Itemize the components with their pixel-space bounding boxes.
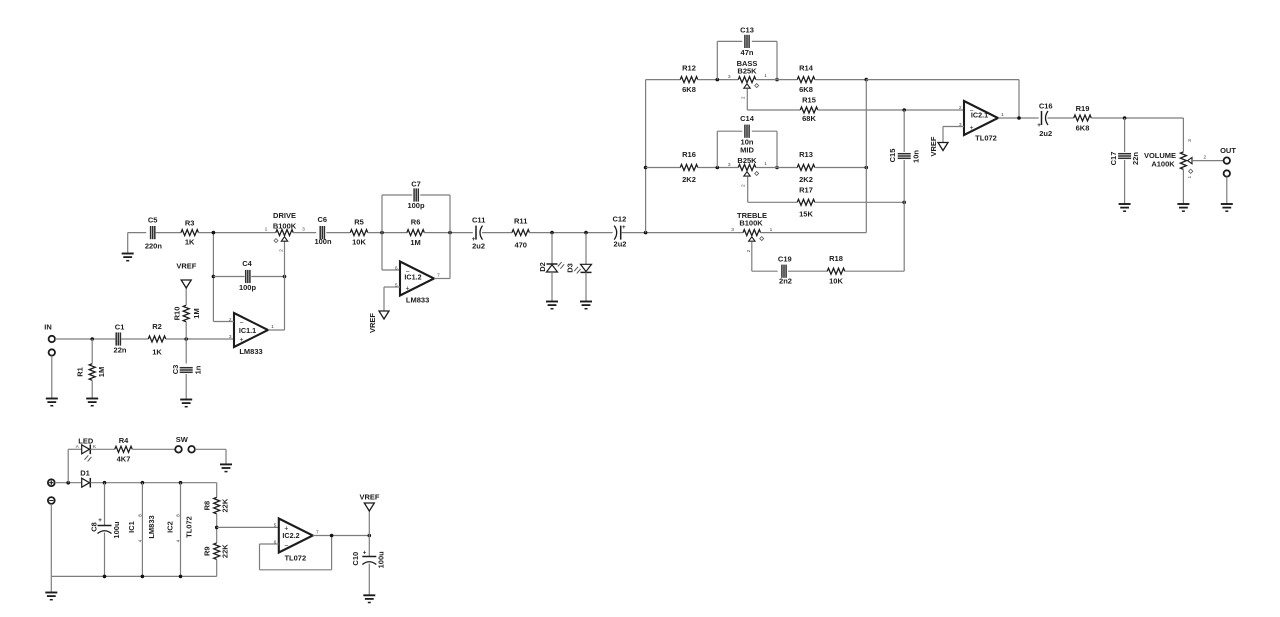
svg-text:A100K: A100K: [1151, 159, 1175, 168]
capacitor C15 10n: [888, 149, 920, 163]
wire LED branch up: [68, 449, 82, 482]
svg-text:100p: 100p: [239, 283, 257, 292]
svg-text:IC1.2: IC1.2: [404, 273, 421, 282]
wire volume bottom to ground: [1182, 170, 1184, 204]
svg-text:+: +: [98, 517, 102, 524]
wire C8 bottom: [104, 533, 106, 577]
svg-text:1M: 1M: [97, 367, 106, 377]
svg-text:100u: 100u: [377, 551, 386, 569]
wire IC1.1 output up to DRIVE wiper: [268, 241, 285, 330]
svg-text:1: 1: [1001, 112, 1004, 118]
svg-text:10n: 10n: [741, 138, 754, 147]
svg-text:R3: R3: [185, 219, 195, 228]
svg-text:1: 1: [764, 161, 767, 167]
wire R4 to SW: [132, 448, 175, 450]
wire D3 to ground: [585, 272, 587, 301]
svg-text:C3: C3: [171, 365, 180, 375]
battery negative terminal: [48, 497, 55, 504]
wire R19 to volume node: [1091, 117, 1183, 119]
wire C3 to ground: [185, 374, 187, 400]
wire C4 right to output branch: [251, 276, 284, 278]
OUT jack J2: [1220, 146, 1236, 177]
junction R3 / C4 branch: [212, 231, 216, 235]
diode D3: [565, 263, 591, 273]
svg-text:2: 2: [959, 105, 962, 111]
svg-text:+: +: [1037, 122, 1041, 129]
svg-text:2n2: 2n2: [779, 276, 792, 285]
svg-text:1: 1: [764, 73, 767, 79]
svg-text:8: 8: [138, 514, 144, 517]
wire R1 bottom to ground: [91, 381, 93, 399]
ground below C10: [363, 595, 375, 602]
junction C17/volume: [1123, 116, 1127, 120]
wire C6 to R5: [326, 232, 350, 234]
svg-text:IC2.2: IC2.2: [282, 531, 299, 540]
svg-text:6: 6: [395, 265, 398, 271]
wire DRIVE right to C6: [293, 232, 316, 234]
capacitor C19 2n2: [778, 255, 792, 286]
wire C17 stem: [1124, 118, 1126, 152]
wire LED to R4: [90, 448, 115, 450]
op-amp IC2.1 TL072: [959, 101, 1004, 142]
svg-text:LM833: LM833: [239, 347, 262, 356]
svg-text:C8: C8: [90, 522, 99, 532]
wire C13 loop left: [717, 41, 742, 79]
svg-text:R15: R15: [802, 95, 816, 104]
wire +9V rail: [90, 482, 216, 484]
wire R2 to IC1.1 pin3: [166, 338, 234, 340]
potentiometer VOLUME A100K: [1144, 139, 1207, 179]
wire SW to ground: [195, 449, 226, 464]
svg-text:2: 2: [1203, 155, 1206, 161]
junction 0V IC2: [179, 575, 183, 579]
svg-text:+: +: [239, 337, 243, 344]
svg-text:5: 5: [274, 522, 277, 528]
svg-text:2: 2: [741, 184, 747, 187]
ground at IN jack: [46, 399, 58, 406]
wire BASS right to R14: [756, 79, 798, 81]
ground below OUT: [1221, 204, 1233, 211]
op-amp IC2.2 TL072: [274, 519, 319, 563]
wire IC1.2 output up to main line: [434, 233, 450, 279]
wire R1 top: [91, 339, 93, 364]
junction IC2.1 output / feedback: [1017, 116, 1021, 120]
svg-text:1n: 1n: [194, 365, 203, 374]
ground at battery: [45, 593, 57, 600]
wire C19 to R18: [788, 270, 827, 272]
wire R12 to BASS pot: [698, 79, 738, 81]
wire ground stub to C5: [128, 233, 147, 254]
resistor R19 6K8: [1074, 104, 1092, 133]
svg-text:470: 470: [514, 241, 527, 250]
svg-text:B100K: B100K: [273, 221, 297, 230]
svg-text:R9: R9: [202, 546, 211, 556]
svg-text:2K2: 2K2: [682, 175, 696, 184]
svg-text:C14: C14: [740, 114, 755, 123]
svg-text:VREF: VREF: [929, 136, 938, 156]
wire IC2.2 feedback loop: [260, 536, 332, 570]
resistor R9 22K: [202, 543, 229, 560]
capacitor C10 100u: [351, 550, 386, 569]
wire R11 to C12: [530, 232, 613, 234]
junction IC2.2 output/feedback: [330, 534, 334, 538]
svg-text:22K: 22K: [220, 544, 229, 558]
wire C12 to TREBLE pot: [621, 232, 743, 234]
junction BASS left / C13 left: [716, 78, 720, 82]
svg-text:C10: C10: [351, 552, 360, 566]
resistor R2 1K: [148, 322, 166, 356]
wire IC2.2 output to VREF node: [313, 535, 370, 537]
wire C14 loop right: [752, 131, 777, 167]
wire D2 stem: [551, 233, 553, 264]
wire C16 to R19: [1048, 117, 1074, 119]
resistor R11 470: [512, 217, 530, 250]
svg-text:22n: 22n: [114, 346, 127, 355]
svg-text:VREF: VREF: [368, 313, 377, 333]
wire OUT sleeve to ground: [1226, 177, 1228, 204]
svg-text:1K: 1K: [185, 238, 195, 247]
svg-text:VREF: VREF: [359, 492, 379, 501]
resistor R4 4K7: [115, 436, 133, 463]
wire R6 to C11: [424, 232, 472, 234]
VREF symbol at IC1.2: [368, 311, 389, 333]
junction 0V IC1: [141, 575, 145, 579]
node B junction C12/tone trunk: [644, 231, 648, 235]
potentiometer DRIVE B100K: [265, 211, 306, 252]
svg-text:2: 2: [279, 249, 285, 252]
svg-text:100n: 100n: [314, 237, 332, 246]
svg-text:R12: R12: [682, 63, 696, 72]
svg-text:C15: C15: [888, 149, 897, 163]
ground below D2: [546, 302, 558, 309]
svg-text:C11: C11: [472, 216, 485, 225]
wire IN to C1: [55, 338, 115, 340]
resistor R3 1K: [181, 219, 199, 247]
wire left branch down to IC1.2 pin6: [382, 233, 400, 270]
svg-text:R10: R10: [172, 307, 181, 321]
svg-text:C19: C19: [778, 255, 792, 264]
ground below D3: [580, 302, 592, 309]
op-amp IC1.2 LM833: [395, 262, 440, 305]
svg-text:OUT: OUT: [1220, 146, 1236, 155]
node A junction R2/R10/C3: [184, 337, 188, 341]
svg-text:B25K: B25K: [737, 66, 757, 75]
resistor R10 1M: [172, 305, 201, 322]
svg-text:15K: 15K: [799, 210, 813, 219]
ground below C17: [1119, 204, 1131, 211]
wire 0V rail: [51, 504, 216, 577]
capacitor C5 220n: [145, 215, 163, 250]
wire IC1.1 pin2 branch up to R3 node: [213, 233, 234, 322]
svg-text:IC1.1: IC1.1: [239, 326, 256, 335]
svg-text:D1: D1: [80, 469, 90, 478]
VREF source symbol: [359, 492, 379, 511]
resistor R14 6K8: [797, 63, 815, 94]
wire R18 to C15 trunk bottom: [845, 160, 904, 271]
wire MID right to R13: [756, 167, 798, 169]
capacitor C16 2u2: [1037, 102, 1052, 138]
svg-text:LED: LED: [78, 436, 94, 445]
op-amp IC1.1 LM833: [229, 313, 274, 356]
svg-text:+: +: [472, 236, 476, 243]
svg-text:1: 1: [1187, 176, 1193, 179]
svg-text:R11: R11: [514, 217, 527, 226]
wire feedback from bass row to output: [866, 80, 1019, 118]
junction R8/R9 divider: [215, 526, 219, 530]
svg-text:47n: 47n: [741, 48, 754, 57]
svg-text:R19: R19: [1076, 104, 1090, 113]
potentiometer MID B25K: [728, 145, 767, 187]
svg-text:7: 7: [316, 530, 319, 536]
wire R16 to MID pot: [698, 167, 738, 169]
junction R14 / feedback line: [865, 78, 869, 82]
junction MID left / C14 left: [716, 166, 720, 170]
svg-text:100u: 100u: [112, 521, 121, 539]
LED indicator: [76, 436, 97, 461]
resistor R1 1M: [76, 364, 106, 381]
wire MID wiper to R17: [748, 176, 798, 202]
svg-text:B25K: B25K: [737, 156, 757, 165]
wire R9 bottom: [216, 559, 218, 576]
wire R5 to R6: [368, 232, 407, 234]
svg-text:B100K: B100K: [739, 219, 763, 228]
potentiometer TREBLE B100K: [731, 211, 772, 252]
svg-text:10K: 10K: [352, 238, 366, 247]
svg-text:8: 8: [176, 514, 182, 517]
junction D2: [550, 231, 554, 235]
wire left tone trunk: [646, 80, 681, 233]
svg-text:−: −: [284, 543, 288, 550]
junction feedback right: [448, 231, 452, 235]
wire D2 to ground: [551, 272, 553, 302]
resistor R13 2K2: [797, 150, 815, 184]
junction rail IC1: [141, 481, 145, 485]
junction C4 left: [212, 275, 216, 279]
svg-text:7: 7: [437, 273, 440, 279]
wire left trunk to R16: [646, 167, 681, 169]
diode D2: [538, 262, 564, 272]
svg-text:C1: C1: [115, 323, 125, 332]
capacitor C7 100p: [407, 180, 425, 211]
svg-text:1K: 1K: [152, 347, 162, 356]
capacitor C13 47n: [740, 26, 754, 58]
svg-text:MID: MID: [740, 145, 754, 154]
svg-text:3: 3: [728, 162, 731, 168]
svg-text:4: 4: [176, 539, 182, 542]
svg-text:+: +: [363, 550, 367, 557]
svg-text:TL072: TL072: [975, 133, 997, 142]
ground below R1: [86, 399, 98, 406]
junction BASS right / C13 right: [775, 78, 779, 82]
svg-text:R17: R17: [799, 186, 813, 195]
wire C10 to ground: [368, 564, 370, 596]
resistor R17 15K: [797, 186, 815, 219]
wire D3 stem: [585, 233, 587, 265]
capacitor C8 100u: [90, 517, 122, 539]
svg-text:10n: 10n: [911, 150, 920, 163]
svg-text:R8: R8: [202, 501, 211, 511]
junction R15 line / C15 trunk: [902, 108, 906, 112]
svg-text:R1: R1: [76, 367, 85, 377]
junction C4 right / DRIVE wiper / IC1.1 output: [283, 275, 287, 279]
junction 0V C8: [103, 575, 107, 579]
junction R17 / C15 trunk: [902, 201, 906, 205]
svg-text:C17: C17: [1109, 152, 1118, 166]
switch SW: [175, 435, 195, 453]
svg-text:R16: R16: [682, 150, 696, 159]
svg-text:R5: R5: [354, 218, 364, 227]
wire VREF node to C10: [368, 536, 370, 557]
svg-text:R18: R18: [829, 254, 843, 263]
resistor R6 1M: [407, 218, 425, 248]
svg-text:6K8: 6K8: [1076, 123, 1090, 132]
capacitor C12 2u2: [613, 214, 627, 248]
svg-text:LM833: LM833: [147, 515, 156, 538]
svg-text:R14: R14: [799, 63, 814, 72]
wire R14 to right trunk: [815, 79, 867, 81]
wire C4 left: [213, 276, 244, 278]
svg-text:TL072: TL072: [185, 516, 194, 538]
svg-text:D2: D2: [538, 262, 547, 272]
svg-text:22n: 22n: [1131, 152, 1140, 165]
svg-text:R2: R2: [152, 322, 162, 331]
junction LED branch: [66, 481, 70, 485]
svg-text:C4: C4: [242, 259, 252, 268]
wire R17 to C15 trunk: [815, 201, 904, 203]
junction D3: [584, 231, 588, 235]
resistor R8 22K: [202, 497, 229, 513]
capacitor C11 2u2: [472, 216, 486, 251]
wire C13 loop right: [752, 41, 777, 79]
wire IC2.1 output: [998, 117, 1039, 119]
battery positive terminal: [48, 479, 55, 486]
IC1 power pins: [127, 483, 156, 577]
svg-text:IC2: IC2: [165, 521, 174, 533]
junction node IN/R1: [90, 337, 94, 341]
resistor R18 10K: [827, 254, 845, 286]
svg-text:TL072: TL072: [284, 553, 306, 562]
svg-text:22K: 22K: [220, 498, 229, 512]
svg-text:+: +: [969, 125, 973, 132]
svg-text:1: 1: [271, 324, 274, 330]
svg-text:C6: C6: [318, 215, 328, 224]
wire volume wiper to OUT: [1192, 160, 1224, 162]
wire IC1.2 pin5 to VREF: [384, 287, 400, 311]
ground below C3: [180, 400, 192, 407]
svg-text:IC1: IC1: [127, 521, 136, 533]
svg-text:C12: C12: [613, 214, 627, 223]
svg-text:R13: R13: [799, 150, 813, 159]
wire node A down to C3: [185, 339, 187, 364]
svg-text:R6: R6: [411, 218, 421, 227]
svg-text:2: 2: [741, 96, 747, 99]
wire R8 to R9: [216, 514, 218, 543]
wire R13 to right trunk: [815, 167, 867, 169]
junction rail C8: [103, 481, 107, 485]
svg-text:+: +: [405, 286, 409, 293]
ground below VOLUME: [1177, 204, 1189, 211]
svg-text:IC2.1: IC2.1: [971, 110, 988, 119]
wire C8 top: [104, 483, 106, 526]
wire C15 trunk top: [903, 110, 905, 152]
wire C14 loop left: [717, 131, 742, 167]
junction feedback left: [380, 231, 384, 235]
wire node A up to R10: [185, 322, 187, 339]
wire VREF node up: [368, 511, 370, 536]
svg-text:C16: C16: [1039, 102, 1053, 111]
svg-text:3: 3: [1187, 139, 1193, 142]
wire R15 to IC2.1 pin2: [818, 109, 964, 111]
capacitor C3 1n: [171, 365, 203, 375]
capacitor C6 100n: [314, 215, 332, 246]
wire C17 to ground: [1124, 160, 1126, 204]
svg-text:6K8: 6K8: [682, 85, 696, 94]
svg-text:2u2: 2u2: [614, 239, 627, 248]
svg-text:C5: C5: [148, 215, 158, 224]
junction R13 / right trunk: [865, 166, 869, 170]
svg-text:C13: C13: [740, 26, 754, 35]
resistor R12 6K8: [680, 63, 698, 94]
svg-text:1M: 1M: [410, 238, 420, 247]
wire C1 to R2: [121, 338, 148, 340]
svg-text:3: 3: [728, 74, 731, 80]
svg-text:100p: 100p: [407, 201, 425, 210]
IC2 power pins: [165, 483, 193, 577]
wire IC2.1 pin3 to VREF: [943, 127, 964, 143]
svg-text:+: +: [622, 224, 626, 231]
wire BASS wiper to R15: [747, 89, 800, 110]
node VREF junction: [368, 534, 372, 538]
svg-text:6K8: 6K8: [799, 85, 813, 94]
VREF symbol at R10: [176, 262, 196, 288]
wire volume top: [1182, 118, 1184, 152]
wire TREBLE wiper down to C19: [752, 241, 778, 271]
svg-text:3: 3: [731, 227, 734, 233]
resistor R16 2K2: [680, 150, 698, 184]
svg-text:2u2: 2u2: [1039, 129, 1052, 138]
svg-text:3: 3: [229, 334, 232, 340]
junction left trunk MID row: [644, 166, 648, 170]
ground at C5: [122, 254, 134, 261]
svg-text:10K: 10K: [829, 277, 843, 286]
capacitor C4 100p: [239, 259, 257, 292]
wire R10 to VREF: [185, 288, 187, 305]
wire R3 to DRIVE pot: [199, 232, 276, 234]
svg-text:VREF: VREF: [176, 262, 196, 271]
svg-text:68K: 68K: [802, 114, 816, 123]
svg-text:220n: 220n: [145, 241, 163, 250]
svg-text:1: 1: [265, 227, 268, 233]
wire C5 to R3: [156, 232, 181, 234]
svg-text:3: 3: [302, 226, 305, 232]
IN jack J1: [44, 323, 55, 356]
wire feedback box right side: [420, 195, 450, 233]
svg-text:4K7: 4K7: [117, 454, 131, 463]
diode D1: [80, 469, 90, 488]
svg-text:SW: SW: [176, 435, 189, 444]
wire C11 to R11: [482, 232, 512, 234]
capacitor C1 22n: [114, 323, 127, 355]
wire divider to IC2.2 pin5: [217, 526, 279, 528]
wire IN sleeve to ground: [51, 356, 53, 399]
svg-text:4: 4: [138, 539, 144, 542]
svg-text:2K2: 2K2: [799, 175, 813, 184]
VREF symbol at IC2.1: [929, 136, 948, 156]
junction MID right / C14 right: [775, 166, 779, 170]
svg-text:IN: IN: [44, 323, 52, 332]
svg-text:1M: 1M: [192, 308, 201, 318]
resistor R15 68K: [800, 95, 818, 123]
